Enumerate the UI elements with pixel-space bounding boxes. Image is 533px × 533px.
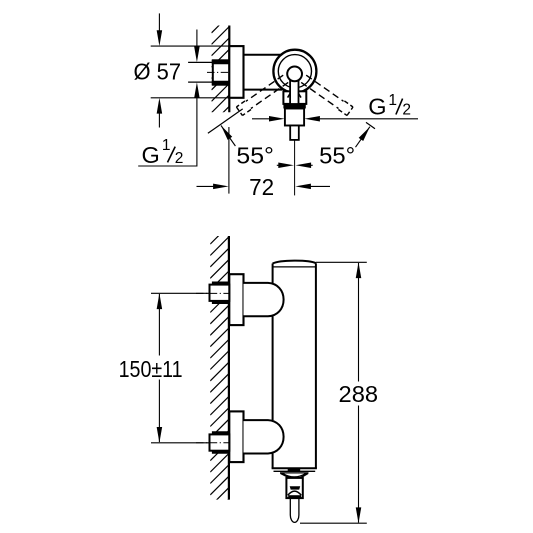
dimension 72 arrow left [197,185,216,187]
dimension 150 extension line top [151,292,210,294]
angle dim arrow on right 55 line [356,127,370,148]
svg-text:G: G [142,142,160,168]
svg-text:150±11: 150±11 [119,356,183,382]
svg-text:1: 1 [388,92,397,109]
outlet nipple (front view) [286,478,302,498]
wall hatching (front view) [210,214,229,518]
lower wall escutcheon (front view) [229,411,243,462]
angle dim arrow at centre line right [309,164,313,166]
wall hatching (top view) [212,4,230,124]
wall face extension line down to 72 dim [228,127,230,194]
dimension Ø57 arrow top [158,13,160,33]
angle dim arrow at centre line left [277,164,280,166]
handle swivel range dashed outline right (top view) [301,82,338,108]
handle housing below valve (top view) [283,91,306,104]
label 288 [337,382,381,406]
mixer body tube (top view) [244,54,283,56]
dimension outlet G1/2 arrow right + leader underline to label [318,118,418,120]
dimension Ø57 extension line top [151,45,230,47]
wall face line (front view) [228,236,230,500]
centre line upper supply (front view) [196,292,230,294]
outlet tube (top view) [285,109,304,126]
dimension 150 extension line bottom [151,442,210,444]
centre line lower supply (front view) [196,442,230,444]
svg-text:1: 1 [162,137,171,154]
angle extension line right (55 deg) [366,122,375,128]
dimension Ø57 arrow bottom [158,111,160,128]
svg-text:288: 288 [339,381,379,407]
hose end (front view) [290,498,299,522]
lower S-union connector (front view) [244,420,284,453]
handle knob circle (top view) [287,67,302,82]
dimension 150 line with arrows [158,294,160,442]
handle stem flare (top view) [288,94,291,98]
nipple bottom black rim (front view) [288,495,301,498]
angle dim arrow on left 55 line [221,126,235,147]
mixer body top cap (front view) [273,261,316,264]
svg-text:72: 72 [249,174,274,200]
svg-text:2: 2 [175,150,184,167]
mixer body left edge (front view) [272,264,274,284]
upper S-union connector (front view) [244,283,284,316]
upper wall escutcheon (front view) [229,274,243,325]
handle tip cap neutral (top view) [290,126,299,140]
dimension 288 extension line bottom [300,522,367,524]
mixer body right edge (front view) [315,263,317,468]
dimension outlet G1/2 arrow left (top view) [252,118,271,120]
dimension G1/2 left arrow bottom + leader to label [138,96,197,166]
nipple ball dome (front view) [288,491,301,495]
supply pipe G1/2 outline (top view) [188,61,213,63]
svg-text:Ø 57: Ø 57 [134,59,182,85]
union nut on supply (top view) [213,60,230,84]
seal ring black band (top view) [283,104,305,109]
dimension 288 line with arrows [358,263,360,523]
mixer body bottom rim (front view) [272,467,317,469]
wall escutcheon (top view) [229,46,243,98]
wall face line (top view) [228,26,230,113]
svg-text:55°: 55° [319,142,355,168]
dimension G1/2 left arrow top [196,30,198,49]
nipple seal black band (front view) [290,486,301,489]
dimension 288 extension line top [316,261,367,263]
valve cap outer circle (top view) [273,50,316,93]
lower union nut (front view) [210,434,230,450]
dimension 72 arrow right [309,185,330,187]
svg-text:G: G [368,93,386,119]
svg-text:2: 2 [402,102,411,119]
handle swivel range dashed outline left (top view) [246,75,283,101]
svg-text:55°: 55° [236,143,274,169]
valve cap inner ring (top view) [278,55,311,88]
upper union nut (front view) [210,285,230,301]
angle extension line left (55 deg) [208,109,243,133]
handle stem neutral (top view) [290,79,298,104]
dimension Ø57 extension line bottom [151,97,230,99]
label 150±11 [119,356,190,380]
vertical centre line below outlet (top view) [294,140,296,196]
centre line of supply (top view) [207,71,232,73]
outlet funnel (front view) [281,473,309,478]
